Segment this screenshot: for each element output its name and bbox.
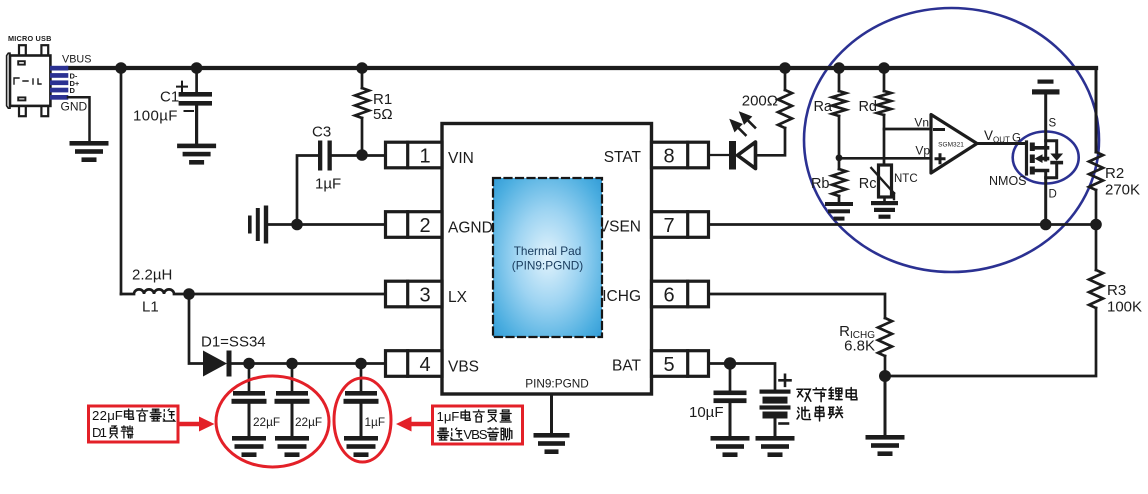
wire pin6 to RICHG	[709, 294, 886, 318]
pin 1 VIN box	[386, 142, 443, 168]
red ellipse around 22uF caps	[216, 376, 329, 467]
svg-text:1: 1	[100, 425, 107, 440]
wire op-amp output to gate	[977, 142, 1027, 145]
svg-text:Vn: Vn	[914, 116, 929, 130]
svg-text:100µF: 100µF	[133, 108, 178, 125]
node drain/VSEN	[1040, 219, 1052, 231]
ground (PGND)	[534, 433, 570, 454]
node R2/R3/VSEN	[1090, 219, 1102, 231]
wire Vn (Rd tap to op-amp)	[884, 128, 931, 131]
wire VBUS top rail	[68, 66, 1096, 70]
diode D1 SS34	[203, 351, 232, 377]
wire LX to pin 3	[189, 293, 386, 296]
svg-text:5: 5	[663, 354, 674, 376]
svg-text:NMOS: NMOS	[989, 174, 1027, 188]
svg-text:VBS: VBS	[448, 359, 479, 376]
wire IC PGND to ground	[550, 394, 553, 433]
capacitor C3 1uF	[318, 141, 332, 171]
svg-text:2: 2	[92, 408, 99, 423]
svg-text:VIN: VIN	[448, 150, 474, 167]
red ellipse around 1uF cap	[334, 378, 391, 462]
svg-text:SGM321: SGM321	[938, 142, 964, 149]
svg-text:2: 2	[100, 408, 107, 423]
svg-text:6: 6	[663, 285, 674, 307]
pin 8 STAT box	[652, 142, 709, 168]
capacitor 10uF	[729, 364, 732, 391]
capacitor C 1uF (VBS)	[360, 364, 363, 392]
pin 2 AGND box	[386, 212, 443, 238]
svg-text:AGND: AGND	[448, 220, 493, 237]
NMOS body diode	[1046, 141, 1057, 178]
callout box 22uF near D1	[89, 406, 179, 442]
svg-text:22µF: 22µF	[253, 415, 280, 429]
resistor Rb	[832, 169, 846, 196]
svg-text:2.2µH: 2.2µH	[132, 267, 172, 284]
node RICHG/R3	[879, 370, 891, 382]
battery BT1 (two cell)	[760, 390, 791, 419]
svg-text:Rd: Rd	[858, 99, 877, 115]
resistor RICHG 6.8K	[878, 318, 892, 356]
svg-text:4: 4	[419, 354, 430, 376]
resistor 200ohm	[778, 90, 792, 128]
wire pin5 to battery	[709, 364, 776, 390]
svg-text:LX: LX	[448, 289, 468, 306]
resistor Rd	[877, 91, 891, 115]
svg-text:ICHG: ICHG	[602, 288, 641, 305]
NMOS highlight ellipse	[1013, 132, 1079, 184]
pin 6 ICHG box	[652, 281, 709, 307]
analysis circle (blue ellipse around op-amp section)	[804, 8, 1099, 272]
thermistor Rc NTC	[879, 165, 892, 197]
svg-text:6.8K: 6.8K	[844, 338, 875, 355]
red arrow left	[410, 422, 433, 427]
wire VSEN (pin7 to R2/R3)	[709, 223, 1097, 226]
svg-text:C3: C3	[312, 124, 331, 141]
capacitor C 22uF (first)	[248, 364, 251, 392]
wire C3 to VIN	[332, 154, 386, 157]
wire Vp (Ra tap to op-amp)	[839, 157, 931, 160]
node AGND/C3 junction	[291, 219, 303, 231]
ground (battery)	[756, 436, 795, 457]
node VIN (R1/C3 junction)	[356, 149, 368, 161]
svg-text:Vp: Vp	[915, 144, 930, 158]
svg-text:D1=SS34: D1=SS34	[201, 334, 266, 351]
connector pins (navy)	[50, 66, 68, 100]
svg-text:7: 7	[663, 215, 674, 237]
ground (USB)	[70, 141, 109, 162]
svg-text:(PIN9:PGND): (PIN9:PGND)	[512, 259, 584, 273]
svg-text:3: 3	[419, 285, 430, 307]
node Rd tap	[878, 62, 890, 74]
wire LED to 200ohm	[756, 128, 786, 155]
svg-text:270K: 270K	[1105, 182, 1140, 199]
wire VBS line	[232, 362, 386, 365]
op-amp minus marker	[935, 128, 944, 131]
svg-text:NTC: NTC	[894, 173, 918, 185]
node C1 tap	[191, 62, 203, 74]
wire AGND	[268, 223, 386, 226]
node cap 1uF	[355, 358, 367, 370]
IC U1 body	[442, 124, 652, 395]
connector inner contact marks	[14, 78, 41, 84]
ground (RICHG)	[866, 435, 905, 456]
label battery plus	[780, 375, 791, 386]
svg-text:100K: 100K	[1107, 299, 1142, 316]
node R1 tap	[356, 62, 368, 74]
svg-text:Ra: Ra	[813, 99, 832, 115]
ground (C1)	[177, 144, 216, 165]
svg-text:1: 1	[419, 146, 430, 168]
pin 7 VSEN box	[652, 212, 709, 238]
ground (Rb)	[825, 202, 853, 221]
svg-text:G: G	[1012, 133, 1021, 145]
connector J1 MICRO USB body	[7, 45, 51, 116]
svg-text:22µF: 22µF	[295, 415, 322, 429]
svg-text:L1: L1	[142, 299, 159, 316]
label battery minus	[780, 422, 789, 425]
svg-text:PIN9:PGND: PIN9:PGND	[525, 377, 589, 391]
resistor R1 5ohm	[355, 88, 369, 118]
label battery chinese line1	[797, 387, 857, 401]
wire LX down to D1	[189, 294, 203, 364]
svg-text:STAT: STAT	[604, 149, 642, 166]
node Ra tap	[833, 62, 845, 74]
LED arrows	[732, 114, 756, 136]
node LX (L1/D1 junction)	[183, 288, 195, 300]
transistor Q1 NMOS	[1025, 142, 1028, 174]
chassis ground (AGND)	[248, 206, 268, 244]
svg-text:D: D	[1049, 189, 1057, 201]
svg-text:GND: GND	[61, 100, 88, 114]
svg-text:MICRO USB: MICRO USB	[8, 34, 52, 43]
svg-text:D: D	[70, 86, 76, 95]
svg-text:R2: R2	[1105, 165, 1124, 182]
svg-text:VBUS: VBUS	[62, 54, 91, 66]
svg-text:S: S	[1049, 118, 1057, 130]
svg-text:F: F	[115, 408, 123, 423]
capacitor C 22uF (second)	[291, 364, 294, 392]
node 200ohm tap	[779, 62, 791, 74]
resistor R3 100K	[1095, 225, 1098, 271]
node cap 22uF b	[286, 358, 298, 370]
svg-text:BAT: BAT	[612, 358, 642, 375]
ground (Rc)	[871, 201, 898, 219]
label C1 minus	[185, 110, 194, 112]
thermal pad PIN9:PGND	[493, 178, 602, 337]
svg-text:2: 2	[419, 215, 430, 237]
svg-text:C1: C1	[160, 89, 179, 106]
svg-text:R3: R3	[1107, 282, 1126, 299]
svg-text:VSEN: VSEN	[599, 219, 641, 236]
LED D2 (status)	[729, 141, 736, 170]
pin 5 BAT box	[652, 351, 709, 377]
label C1 plus	[177, 82, 187, 92]
ground (10uF)	[711, 436, 750, 457]
op-amp U2 SGM321	[931, 115, 977, 174]
inductor L1 2.2uH	[121, 289, 189, 294]
node VBUS/left branch	[115, 62, 127, 74]
svg-text:Rb: Rb	[811, 176, 830, 192]
wire NMOS drain down	[1044, 171, 1047, 226]
node cap 22uF a	[243, 358, 255, 370]
svg-text:1µF: 1µF	[315, 176, 341, 193]
wire right rail down to R2	[1095, 68, 1098, 152]
wire USB GND	[68, 97, 90, 141]
wire RICHG node to ground	[884, 376, 887, 435]
wire VBUS to L1	[120, 68, 123, 294]
capacitor C1 100uF electrolytic	[195, 68, 198, 92]
wire pin8 to LED	[709, 154, 730, 156]
wire C3 to AGND	[297, 156, 318, 225]
op-amp plus marker	[936, 155, 944, 163]
svg-text:1µF: 1µF	[365, 415, 386, 429]
callout box 1uF near VBS	[433, 406, 523, 444]
pin 3 LX box	[386, 281, 443, 307]
label battery chinese line2	[797, 406, 843, 421]
svg-text:5Ω: 5Ω	[373, 106, 393, 123]
red arrow right	[178, 422, 201, 427]
svg-text:S: S	[479, 427, 488, 442]
resistor R2 270K	[1089, 152, 1103, 190]
svg-text:8: 8	[663, 146, 674, 168]
svg-text:200Ω: 200Ω	[742, 93, 778, 110]
pin 4 VBS box	[386, 351, 443, 377]
power flag above NMOS source	[1032, 80, 1060, 95]
node 10uF tap	[724, 357, 736, 369]
svg-text:1: 1	[437, 409, 444, 424]
svg-text:Thermal Pad: Thermal Pad	[514, 244, 582, 258]
svg-text:F: F	[451, 409, 459, 424]
resistor Ra	[832, 91, 846, 116]
node Ra/Rb (Vp)	[836, 154, 843, 161]
svg-text:Rc: Rc	[859, 176, 877, 192]
svg-text:10µF: 10µF	[689, 404, 724, 421]
